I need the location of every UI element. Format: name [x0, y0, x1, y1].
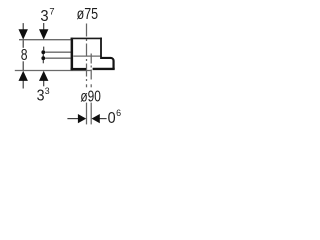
body bottom right rim — [93, 68, 115, 70]
svg-text:6: 6 — [116, 108, 121, 119]
centerline axis 1 (o75 axis) — [86, 24, 88, 82]
centerline axis 2 (o90 axis) — [90, 54, 92, 82]
arrow left dim 06 — [92, 114, 100, 123]
body bottom left rim — [71, 68, 86, 70]
dim 37 stem to dot — [43, 47, 45, 51]
extension line axis 2 below o90 text — [90, 103, 92, 125]
centerline axis 2 stub above o90 text — [90, 84, 92, 87]
arrow up dim 8 — [19, 71, 28, 81]
body inner edge line — [73, 55, 100, 57]
body top edge — [71, 37, 102, 39]
dim 8 stem upper tail — [22, 23, 24, 30]
svg-text:8: 8 — [21, 47, 28, 64]
arrow down dim 8 — [19, 29, 28, 39]
dim 33 stem lower tail — [43, 80, 45, 86]
body step edge — [100, 38, 102, 58]
dim 8 stem inner top — [22, 40, 24, 48]
dim 33 stem below dot — [42, 60, 44, 63]
dimension label 37 — [40, 7, 54, 25]
dim 8 stem lower tail — [22, 80, 24, 88]
dim 06 stem right — [100, 118, 107, 120]
dim 37 stem upper tail — [43, 23, 45, 30]
extension line bottom (bottom surface) — [15, 70, 91, 72]
dim 06 stem left — [67, 118, 78, 120]
svg-text:3: 3 — [45, 86, 50, 97]
svg-text:ø75: ø75 — [77, 6, 99, 23]
dimension label 33 — [37, 86, 50, 105]
dimension label 06 — [108, 108, 122, 127]
svg-text:7: 7 — [49, 7, 54, 18]
dim stem between dots — [42, 52, 44, 58]
svg-text:0: 0 — [108, 110, 116, 127]
extension line top (top surface) — [19, 39, 71, 41]
svg-text:3: 3 — [37, 88, 45, 105]
svg-text:3: 3 — [40, 8, 48, 25]
body left wall (section bar) — [71, 38, 74, 70]
arrow up dim 33 — [39, 71, 48, 81]
arrow down dim 37 — [39, 29, 48, 39]
extension line flange top (33 ref) — [45, 57, 71, 59]
dot terminator dim 37 — [41, 50, 45, 54]
centerline axis 1 stub above o90 text — [86, 84, 88, 87]
body flange top and right edge with rounded corner — [100, 58, 113, 69]
extension line inner ceiling (37 ref) — [45, 51, 73, 53]
arrow right dim 06 — [78, 114, 86, 123]
dot terminator dim 33 — [41, 56, 45, 60]
extension line axis 1 below o90 text — [86, 103, 88, 125]
dim 8 stem inner bottom — [22, 61, 24, 70]
